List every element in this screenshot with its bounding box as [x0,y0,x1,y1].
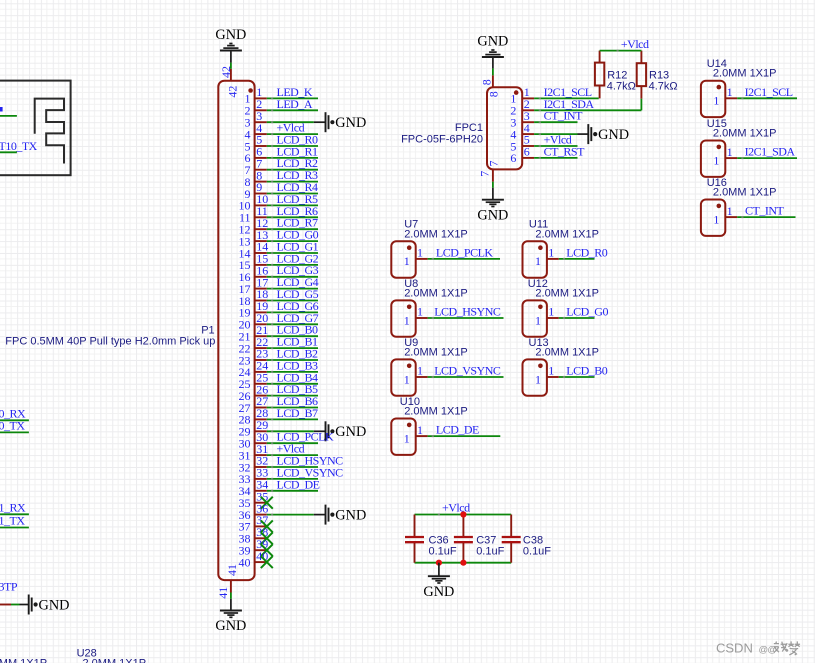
svg-text:1: 1 [713,153,719,167]
no-connect flag pin 38 [261,532,273,544]
svg-text:1: 1 [404,313,410,327]
wire [267,240,318,242]
svg-text:1: 1 [548,305,554,319]
value 2.0MM 1X1P [404,228,468,240]
svg-text:41: 41 [216,587,230,599]
svg-text:42: 42 [226,86,240,98]
junction [460,511,466,517]
svg-text:R13: R13 [649,69,669,81]
net label LCD_PCLK [277,430,335,444]
net label LCD_G6 [277,299,319,313]
svg-text:4.7kΩ: 4.7kΩ [649,81,678,93]
wire [267,395,318,397]
net label LCD_G1 [277,240,319,254]
pin 18 [239,287,269,308]
svg-text:3TP: 3TP [0,580,18,594]
svg-text:GND: GND [215,27,246,43]
connector U7 2.0MM 1X1P [391,241,415,277]
svg-text:1: 1 [548,364,554,378]
pin 1 [245,85,267,106]
svg-text:LCD_R0: LCD_R0 [566,245,608,259]
svg-text:GND: GND [335,424,366,440]
connector U16 2.0MM 1X1P [701,200,725,236]
svg-text:7: 7 [487,161,501,167]
svg-text:@@: @@ [759,645,777,656]
pin 1 [510,85,534,106]
wire [737,97,797,99]
wire [230,51,232,69]
pin 1 marker dot [717,204,722,209]
pin 25 [239,371,269,392]
svg-text:4.7kΩ: 4.7kΩ [607,81,636,93]
net label LCD_G7 [277,311,319,325]
svg-text:1: 1 [535,372,541,386]
wire +Vlcd [600,50,642,52]
wire [267,228,318,230]
wire [267,442,318,444]
capacitor C36 [405,515,424,563]
reference designator FPC1 [455,122,483,134]
pin 32 [239,454,269,475]
wire [0,604,29,606]
wire [230,593,232,611]
net label LCD_G4 [277,275,319,289]
wire [438,563,440,577]
reference designator U11 [529,219,548,231]
wire [267,347,318,349]
reference designator U16 [707,177,727,189]
pin 40 [239,549,269,570]
svg-text:1: 1 [417,364,423,378]
net label LCD_B1 [277,335,319,349]
ground at P1 pin 36 [326,505,367,525]
pin 31 [239,442,269,463]
svg-text:2.0MM 1X1P: 2.0MM 1X1P [404,287,468,299]
pin 4 [245,121,267,142]
pin 6 [245,145,267,166]
pin 36 [239,501,269,522]
wire [0,419,29,421]
net label LCD_DE [436,423,479,437]
net label CT_RST [544,144,586,158]
no-connect flag pin 37 [261,520,273,532]
pin 2 [510,97,534,118]
reference designator U13 [529,337,549,349]
net label I2C1_SDA [745,145,796,159]
pin 34 [239,478,269,499]
wire [534,145,577,147]
svg-text:R12: R12 [607,69,627,81]
value 4.7kOhm [649,81,678,93]
svg-text:41: 41 [225,564,239,576]
pin 1 marker dot [407,423,412,428]
value 4.7kOhm [607,81,636,93]
svg-text:2.0MM 1X1P: 2.0MM 1X1P [713,187,777,199]
net label 1_TX (cut) [0,514,25,528]
wire [267,335,318,337]
net label LCD_R4 [277,180,319,194]
pin 1 [535,364,559,387]
svg-text:2.0MM 1X1P: 2.0MM 1X1P [404,406,468,418]
svg-text:2.0MM 1X1P: 2.0MM 1X1P [0,658,47,663]
svg-text:2.0MM 1X1P: 2.0MM 1X1P [83,658,147,663]
pin 13 [239,228,269,249]
wire [737,216,795,218]
svg-text:LED_A: LED_A [277,97,313,111]
svg-text:2.0MM 1X1P: 2.0MM 1X1P [535,287,599,299]
pin 7 [245,156,267,177]
pin 8 [245,168,267,189]
svg-text:GND: GND [39,597,70,613]
svg-text:I2C1_SDA: I2C1_SDA [745,145,796,159]
reference designator R13 [649,69,669,81]
net label LCD_B3 [277,358,319,372]
no-connect flag pin 40 [261,556,273,568]
wire [428,317,504,319]
wire [267,430,326,432]
net label LCD_B7 [277,406,319,420]
svg-text:1: 1 [404,372,410,386]
net label 0_RX (cut) [0,407,26,421]
wire [534,157,577,159]
svg-text:CSDN: CSDN [716,641,753,656]
value 2.0MM 1X1P [535,346,599,358]
pin 1 [404,364,428,387]
pin 9 [245,180,267,201]
pin 42 [219,66,240,98]
pin 41 [216,564,239,599]
net label I2C1_SCL [544,85,592,99]
wire [267,454,318,456]
pin 3 [510,109,534,130]
pin 14 [239,240,269,261]
connector U15 2.0MM 1X1P [701,141,725,177]
wire [267,97,318,99]
R13 top pin [640,51,642,64]
wire [267,192,318,194]
svg-text:LCD_B7: LCD_B7 [277,406,319,420]
resistor R12 [595,63,604,86]
svg-text:LCD_PCLK: LCD_PCLK [436,245,494,259]
net label I2C1_SCL [745,85,793,99]
net label LCD_G5 [277,287,319,301]
value 2.0MM 1X1P [713,68,777,80]
wire [267,323,318,325]
wire [267,514,326,516]
value 0.1uF [523,545,551,557]
wire [267,418,318,420]
pin 11 [239,204,268,225]
wire [492,182,494,200]
net label T10_TX (cut) [0,139,38,153]
wire [534,133,588,135]
svg-text:1: 1 [535,254,541,268]
antenna meander graphic [35,99,64,164]
net label LCD_B0 [277,323,319,337]
svg-text:GND: GND [477,207,508,223]
svg-text:8: 8 [487,91,501,97]
pin 1 marker dot [407,364,412,369]
value 0.1uF [429,545,457,557]
value 2.0MM 1X1P [535,287,599,299]
pin 10 [239,192,269,213]
wire [267,133,318,135]
svg-text:GND: GND [477,34,508,50]
wire [267,490,318,492]
pin 37 [239,513,269,534]
junction [436,560,442,566]
svg-text:LCD_DE: LCD_DE [436,423,479,437]
pin 35 [239,489,269,510]
pin 39 [239,537,269,558]
svg-text:1: 1 [417,423,423,437]
svg-text:1: 1 [727,85,733,99]
wire [559,258,595,260]
pin 1 marker dot [514,90,519,95]
net label CT_INT [745,204,784,218]
svg-text:1: 1 [417,246,423,260]
svg-text:8: 8 [480,79,494,85]
net label 3TP (cut) [0,580,18,594]
pin 17 [239,275,269,296]
capacitor C37 [454,515,473,563]
pin 12 [239,216,269,237]
wire [267,109,318,111]
wire [267,383,318,385]
wire [559,376,595,378]
pin 1 marker dot [538,364,543,369]
svg-text:CT_RST: CT_RST [544,144,586,158]
reference designator U14 [707,58,727,70]
connector U10 2.0MM 1X1P [391,419,415,455]
pin 1 marker dot [717,145,722,150]
svg-text:1: 1 [404,431,410,445]
pin 7 [478,161,501,182]
pin 1 [404,423,428,446]
ground at P1 pin 3 [326,112,367,132]
ground at P1 pin 41 [215,611,246,635]
reference designator R12 [607,69,627,81]
wire [267,371,318,373]
R13 bottom pin [640,86,642,99]
wire [267,288,318,290]
net label LCD_G0 [566,305,608,319]
pin 1 [713,204,737,227]
net label +Vlcd [277,121,305,135]
net label LCD_B5 [277,382,319,396]
ground at FPC1 pin 8 [477,34,508,58]
pin 1 marker dot [248,88,253,93]
svg-text:GND: GND [423,584,454,600]
wire [267,478,318,480]
net label LCD_PCLK [436,245,494,259]
svg-text:I2C1_SCL: I2C1_SCL [745,85,793,99]
svg-text:CT_INT: CT_INT [745,204,784,218]
wire [428,435,501,437]
svg-text:0.1uF: 0.1uF [476,545,504,557]
pin 1 marker dot [538,245,543,250]
svg-text:FPC1: FPC1 [455,122,483,134]
value 2.0MM 1X1P [404,406,468,418]
value 2.0MM 1X1P (cut) [0,658,47,663]
svg-text:6: 6 [524,145,530,159]
wire [267,264,318,266]
ground at capacitor bank [423,576,454,600]
wire +Vlcd rail [415,513,512,515]
wire [267,359,318,361]
wire [267,466,318,468]
reference designator U28 (cut) [77,647,97,659]
pin 1 [535,305,559,328]
net label LCD_R1 [277,144,319,158]
ground at P1 pin 29 [326,421,367,441]
pin 4 [510,121,534,142]
svg-text:1: 1 [548,246,554,260]
svg-text:1: 1 [404,254,410,268]
pin 1 marker dot [407,245,412,250]
pin 2 [245,97,267,118]
net label LCD_DE [277,477,320,491]
pin 8 [480,75,501,97]
net label +Vlcd [621,37,649,51]
reference designator U9 [404,337,418,349]
wire [267,299,318,301]
reference designator C36 [429,535,449,547]
reference designator U12 [528,278,548,290]
svg-text:2.0MM 1X1P: 2.0MM 1X1P [713,68,777,80]
net label LCD_VSYNC [277,465,344,479]
svg-text:1: 1 [535,313,541,327]
junction [460,560,466,566]
reference designator C38 [523,535,543,547]
svg-text:1_TX: 1_TX [0,514,25,528]
wire [267,216,318,218]
wire [0,527,29,529]
reference designator C37 [476,535,496,547]
svg-text:LCD_B0: LCD_B0 [566,364,608,378]
pin 1 marker dot [538,305,543,310]
no-connect flag pin 39 [261,544,273,556]
net label LCD_R7 [277,216,319,230]
svg-text:GND: GND [335,115,366,131]
wire [267,311,318,313]
connector U8 2.0MM 1X1P [391,300,415,336]
svg-text:6: 6 [510,151,516,165]
net label CT_INT [544,109,583,123]
svg-text:2.0MM 1X1P: 2.0MM 1X1P [535,228,599,240]
pin 23 [239,347,269,368]
pin 1 marker dot [717,85,722,90]
value 2.0MM 1X1P [404,346,468,358]
wire [267,157,318,159]
reference designator U7 [404,219,418,231]
pin 5 [510,133,534,154]
pin 6 [510,145,534,166]
net label LED_K [277,85,313,99]
svg-text:FPC 0.5MM 40P Pull type H2.0mm: FPC 0.5MM 40P Pull type H2.0mm Pick up [5,336,215,348]
wire [640,99,642,111]
reference designator P1 [201,325,214,337]
net label 1_RX (cut) [0,501,26,515]
ground at bottom-left [29,595,70,615]
pin 16 [239,263,269,284]
pin 28 [239,406,269,427]
svg-text:2.0MM 1X1P: 2.0MM 1X1P [404,228,468,240]
svg-text:LCD_VSYNC: LCD_VSYNC [434,364,501,378]
wire [267,252,318,254]
reference designator U10 [400,396,420,408]
net label LCD_R3 [277,168,319,182]
R12 bottom pin [599,86,601,99]
R12 top pin [599,51,601,63]
net label LCD_R2 [277,156,319,170]
wire [0,107,17,116]
net label +Vlcd [277,442,305,456]
wire [267,204,318,206]
wire [428,376,504,378]
wire [267,169,318,171]
value 2.0MM 1X1P [535,228,599,240]
connector P1 FPC 40P [218,81,254,580]
reference designator U8 [404,278,418,290]
svg-text:1_RX: 1_RX [0,501,26,515]
svg-text:1: 1 [727,145,733,159]
pin 1 [404,305,428,328]
net label +Vlcd [442,501,470,515]
net label LCD_R0 [566,245,608,259]
pin 22 [239,335,269,356]
pin 5 [245,133,267,154]
pin 3 [245,109,267,130]
value 2.0MM 1X1P (cut) [83,658,147,663]
net label LCD_HSYNC [277,454,344,468]
wire [534,97,599,99]
connector U13 2.0MM 1X1P [523,359,547,395]
watermark CSDN @@残梦 [716,641,800,656]
wire [267,276,318,278]
wire [492,57,494,75]
pin 33 [239,466,269,487]
pin 38 [239,525,269,546]
svg-text:7: 7 [478,171,492,177]
net label I2C1_SDA [544,97,595,111]
module box (cut off at left edge) [0,81,71,176]
svg-text:2.0MM 1X1P: 2.0MM 1X1P [713,128,777,140]
connector U14 2.0MM 1X1P [701,81,725,117]
svg-text:2.0MM 1X1P: 2.0MM 1X1P [404,346,468,358]
pin 1 [713,145,737,168]
value 2.0MM 1X1P [713,128,777,140]
svg-text:0_TX: 0_TX [0,419,25,433]
pin 29 [239,418,269,439]
pin 1 [713,85,737,108]
connector U9 2.0MM 1X1P [391,359,415,395]
wire [428,258,500,260]
pin 15 [239,252,269,273]
connector FPC1 [487,87,522,169]
svg-text:GND: GND [598,127,629,143]
wire [267,145,318,147]
wire [0,513,29,515]
net label 0_TX (cut) [0,419,25,433]
wire [534,121,577,123]
svg-text:GND: GND [215,618,246,634]
net label LCD_R5 [277,192,319,206]
svg-text:+Vlcd: +Vlcd [442,501,470,515]
connector U12 2.0MM 1X1P [523,300,547,336]
svg-text:1: 1 [713,94,719,108]
wire [267,181,318,183]
